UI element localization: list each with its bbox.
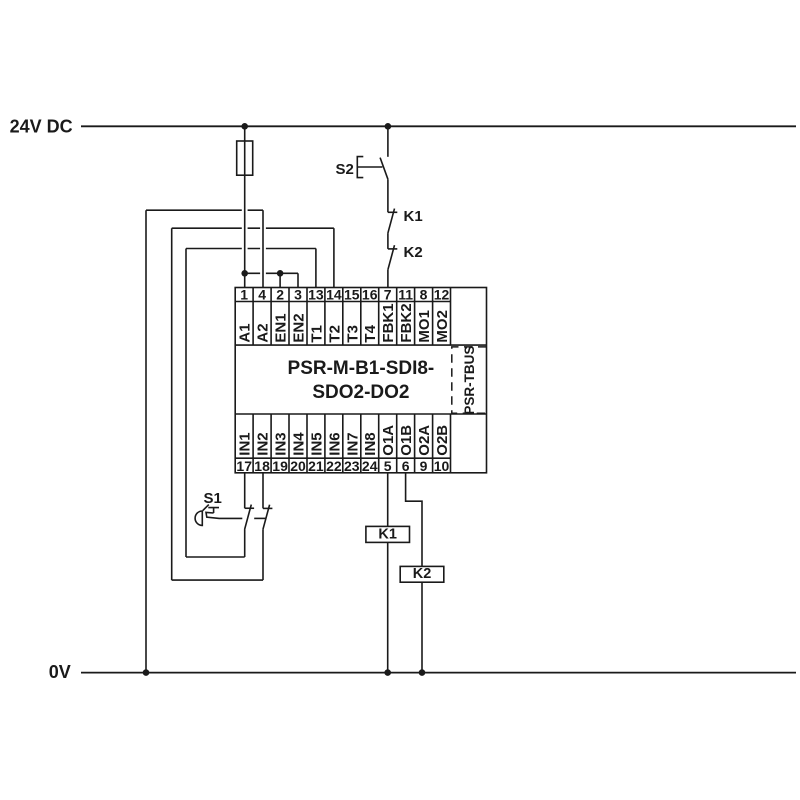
wire drop to terminal 3 EN2	[297, 273, 299, 287]
node junction dot rail-S2	[385, 123, 392, 130]
pushbutton S1 T latch	[208, 508, 219, 513]
wire loop C left vertical	[185, 249, 187, 558]
svg-text:T2: T2	[326, 325, 343, 343]
svg-text:3: 3	[294, 287, 302, 303]
fuse F1	[237, 141, 253, 175]
wire loop A left vertical down to 0V	[145, 210, 147, 672]
svg-text:EN1: EN1	[273, 313, 290, 342]
contact K1 (NC) seat	[388, 211, 397, 213]
wire coil K2 to 0V	[421, 582, 423, 672]
wire fuse drop from 24V to terminal 1	[244, 126, 246, 287]
wire loop A top horizontal (A2 to left rail drop)	[146, 209, 263, 211]
wire K2 contact to terminal 7 FBK1	[387, 270, 389, 288]
svg-text:16: 16	[362, 287, 378, 303]
wire loop B right drop to terminal 14	[333, 228, 335, 287]
svg-text:15: 15	[344, 287, 360, 303]
pin labels bottom row	[237, 425, 451, 456]
svg-text:21: 21	[308, 458, 324, 474]
svg-text:IN8: IN8	[362, 432, 379, 455]
switch S2 pushbutton bracket	[357, 157, 363, 178]
svg-text:K2: K2	[404, 244, 423, 261]
svg-text:14: 14	[326, 287, 342, 303]
wire IN1 terminal 17 to S1 contact 1	[244, 473, 246, 508]
relay block row line above bottom numbers	[235, 457, 450, 459]
svg-text:O1A: O1A	[380, 425, 397, 456]
wire K1 contact to K2 contact	[387, 233, 389, 249]
svg-text:4: 4	[258, 287, 266, 303]
pin numbers top row	[240, 287, 449, 303]
contact K2 (NC) seat	[388, 248, 397, 250]
svg-text:1: 1	[240, 287, 248, 303]
svg-text:24V DC: 24V DC	[10, 116, 73, 136]
svg-text:A1: A1	[237, 323, 254, 342]
svg-text:8: 8	[420, 287, 428, 303]
coil K1	[366, 526, 410, 542]
svg-text:IN5: IN5	[308, 432, 325, 455]
svg-text:12: 12	[434, 287, 450, 303]
svg-text:K2: K2	[413, 566, 432, 582]
svg-text:T3: T3	[344, 325, 361, 343]
contact K1 (NC) blade	[388, 209, 395, 234]
relay block row line below top labels	[235, 344, 486, 346]
coil K2	[400, 566, 444, 582]
wire drop to terminal 2 EN1	[279, 273, 281, 287]
svg-text:K1: K1	[404, 208, 423, 225]
pin numbers bottom row	[236, 458, 449, 474]
svg-text:S2: S2	[336, 161, 354, 178]
svg-text:O1B: O1B	[398, 425, 415, 456]
pin labels top row	[237, 303, 451, 342]
svg-text:EN2: EN2	[290, 313, 307, 342]
svg-text:0V: 0V	[49, 662, 71, 682]
svg-text:6: 6	[402, 458, 410, 474]
relay block cell dividers top	[253, 288, 450, 346]
svg-text:IN3: IN3	[273, 432, 290, 455]
wire coil K1 to 0V	[387, 542, 389, 672]
svg-text:9: 9	[420, 458, 428, 474]
wire loop B bottom horizontal to S1 contact 2	[172, 579, 263, 581]
svg-text:FBK1: FBK1	[380, 303, 397, 342]
contact S1-2 (NC) seat	[263, 507, 272, 509]
svg-text:T1: T1	[308, 325, 325, 343]
svg-text:19: 19	[272, 458, 288, 474]
PSR-TBUS dashed box	[452, 347, 487, 413]
switch S2 actuator link	[357, 166, 382, 168]
pushbutton S1 actuator dashed link	[254, 517, 266, 519]
svg-text:A2: A2	[255, 323, 272, 342]
wire O1A terminal 5 to coil K1	[387, 473, 389, 527]
relay block row line above bottom labels	[235, 413, 486, 415]
svg-text:PSR-M-B1-SDI8-: PSR-M-B1-SDI8-	[288, 358, 435, 379]
relay block cell dividers bottom	[253, 414, 450, 473]
node 24V DC rail	[81, 125, 796, 127]
wire IN2 terminal 18 to S1 contact 2	[262, 473, 264, 509]
node junction dot rail-fuse	[241, 123, 248, 130]
svg-text:10: 10	[434, 458, 450, 474]
wire S2 to K1 contact	[387, 179, 389, 212]
svg-text:O2B: O2B	[434, 425, 451, 456]
contact S1-1 (NC) blade	[245, 505, 252, 530]
svg-text:IN7: IN7	[344, 432, 361, 455]
contact S1-1 (NC) seat	[245, 507, 254, 509]
node 0V rail	[81, 672, 796, 674]
svg-text:SDO2-DO2: SDO2-DO2	[312, 382, 409, 403]
svg-text:24: 24	[362, 458, 378, 474]
svg-text:MO1: MO1	[416, 310, 433, 343]
wire loop C right drop to terminal 13	[315, 249, 317, 288]
switch S2 upper wire	[387, 126, 389, 157]
svg-text:20: 20	[290, 458, 306, 474]
wire drop to terminal 4 A2	[262, 210, 264, 287]
svg-text:22: 22	[326, 458, 342, 474]
switch S2 blade	[380, 158, 388, 180]
wire loop B top horizontal (T2 feedback)	[172, 227, 334, 229]
svg-text:FBK2: FBK2	[398, 303, 415, 342]
svg-text:O2A: O2A	[416, 425, 433, 456]
relay block outline	[235, 288, 486, 473]
svg-text:IN1: IN1	[237, 432, 254, 455]
svg-text:PSR-TBUS: PSR-TBUS	[462, 346, 477, 415]
svg-text:IN4: IN4	[290, 432, 307, 456]
node junction dot at A1 column	[241, 270, 248, 277]
pushbutton S1 mushroom head	[195, 511, 202, 525]
svg-text:S1: S1	[204, 490, 222, 507]
node junction dot K2 at 0V	[419, 669, 426, 676]
svg-text:7: 7	[384, 287, 392, 303]
svg-text:MO2: MO2	[434, 310, 451, 343]
node junction dot at EN1 column	[277, 270, 284, 277]
wire loop C top horizontal (T1 feedback)	[186, 248, 316, 250]
node junction dot loop A at 0V rail	[143, 669, 150, 676]
node junction dot K1 at 0V	[384, 669, 391, 676]
svg-text:T4: T4	[362, 324, 379, 342]
svg-text:IN6: IN6	[326, 432, 343, 455]
svg-text:2: 2	[276, 287, 284, 303]
wire loop B left vertical	[171, 228, 173, 580]
pushbutton S1 actuator linkage	[206, 512, 242, 518]
relay block row line below top numbers	[235, 301, 450, 303]
svg-text:17: 17	[236, 458, 252, 474]
svg-text:23: 23	[344, 458, 360, 474]
wire S1 contact 1 bottom	[244, 529, 246, 557]
svg-text:11: 11	[398, 287, 413, 303]
svg-text:K1: K1	[378, 526, 397, 542]
contact K2 (NC) blade	[388, 245, 395, 270]
wire O1B terminal 6 jog to coil K2	[406, 473, 422, 567]
pushbutton S1 stem tilt	[203, 505, 209, 511]
wire S1 contact 2 bottom	[262, 529, 264, 580]
contact S1-2 (NC) blade	[263, 505, 270, 530]
svg-text:18: 18	[254, 458, 270, 474]
svg-text:IN2: IN2	[255, 432, 272, 455]
wire loop C bottom horizontal to S1 contact 1	[186, 556, 245, 558]
wire horizontal A1 junction to EN1/EN2 (y=273.3)	[245, 272, 298, 274]
svg-text:13: 13	[308, 287, 324, 303]
svg-text:5: 5	[384, 458, 392, 474]
